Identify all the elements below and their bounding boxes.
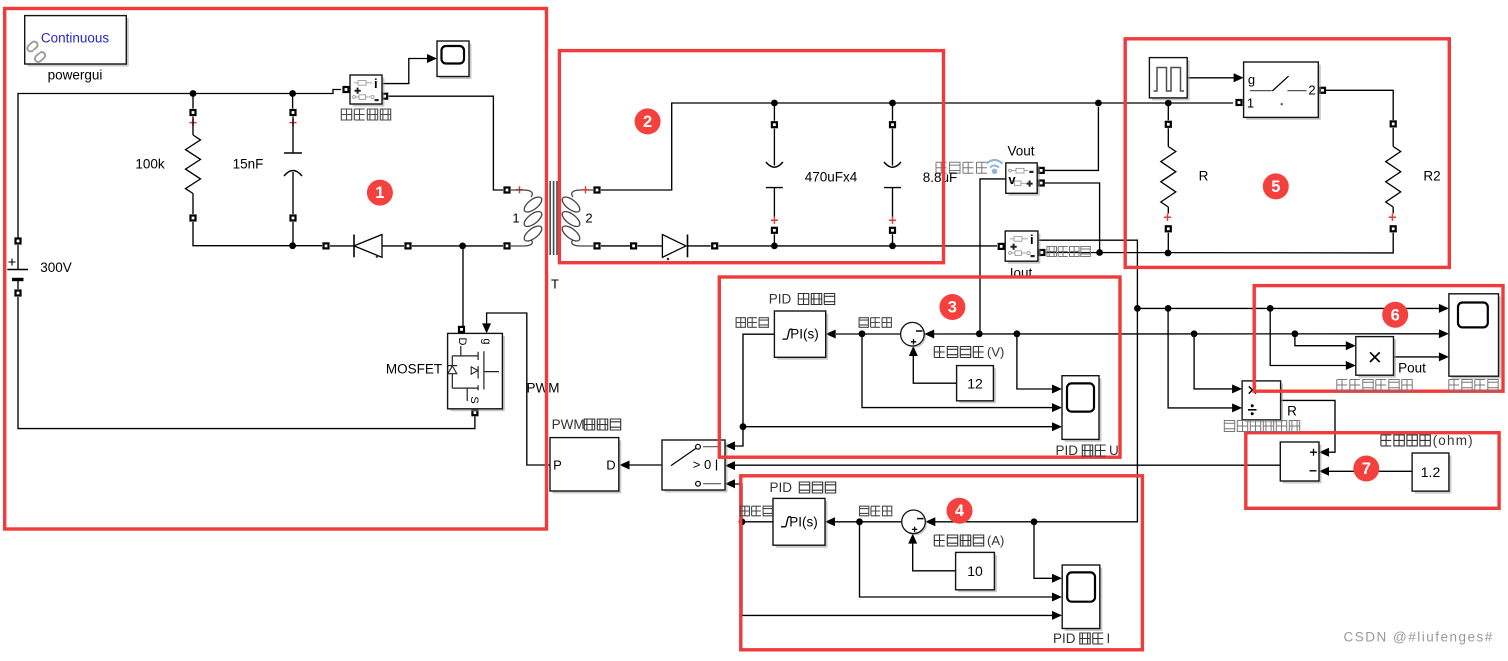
svg-text:2: 2: [585, 211, 592, 226]
svg-text:PID: PID: [769, 292, 792, 307]
svg-text:g: g: [1248, 72, 1255, 87]
svg-text:i: i: [374, 76, 378, 91]
svg-text:> 0: > 0: [693, 457, 711, 472]
svg-text:5: 5: [1271, 178, 1280, 196]
svg-text:D: D: [456, 338, 468, 346]
svg-text:g: g: [481, 338, 493, 344]
svg-text:I: I: [1107, 631, 1111, 646]
svg-text:CSDN @#liufenges#: CSDN @#liufenges#: [1344, 630, 1494, 645]
svg-text:T: T: [551, 277, 559, 292]
svg-text:R: R: [1199, 169, 1209, 184]
svg-text:(V): (V): [987, 345, 1004, 360]
svg-text:15nF: 15nF: [233, 157, 264, 172]
svg-text:6: 6: [1391, 306, 1400, 324]
svg-text:powergui: powergui: [48, 68, 103, 83]
svg-text:3: 3: [948, 299, 957, 317]
svg-text:PWM: PWM: [552, 417, 585, 432]
svg-text:Continuous: Continuous: [41, 31, 110, 46]
svg-text:R: R: [1287, 404, 1297, 419]
svg-text:300V: 300V: [40, 260, 72, 275]
svg-text:PID: PID: [1053, 631, 1076, 646]
svg-text:PID: PID: [770, 480, 793, 495]
svg-text:100k: 100k: [135, 157, 165, 172]
svg-text:P: P: [553, 457, 562, 472]
svg-text:12: 12: [967, 375, 983, 391]
svg-text:1: 1: [375, 184, 384, 202]
svg-text:2: 2: [643, 113, 652, 131]
svg-text:i: i: [1030, 232, 1034, 247]
svg-text:PWM: PWM: [527, 381, 560, 396]
svg-text:U: U: [1109, 443, 1119, 458]
svg-text:(ohm): (ohm): [1433, 433, 1474, 448]
svg-text:D: D: [606, 457, 615, 472]
svg-text:PI(s): PI(s): [789, 514, 818, 529]
svg-text:MOSFET: MOSFET: [386, 362, 442, 377]
svg-text:1: 1: [512, 211, 519, 226]
svg-text:Vout: Vout: [1007, 144, 1034, 159]
svg-text:4: 4: [955, 502, 965, 520]
svg-text:S: S: [468, 396, 480, 403]
svg-text:2: 2: [1308, 83, 1315, 98]
svg-text:(A): (A): [987, 533, 1004, 548]
svg-text:R2: R2: [1423, 169, 1440, 184]
svg-text:10: 10: [967, 563, 983, 579]
svg-text:470uFx4: 470uFx4: [805, 170, 858, 185]
svg-text:Pout: Pout: [1398, 361, 1426, 376]
svg-text:PI(s): PI(s): [790, 327, 819, 342]
svg-text:PID: PID: [1056, 443, 1079, 458]
svg-text:1: 1: [1247, 96, 1254, 111]
svg-text:8.8uF: 8.8uF: [923, 170, 958, 185]
svg-text:7: 7: [1362, 460, 1371, 478]
svg-text:1.2: 1.2: [1421, 464, 1441, 480]
